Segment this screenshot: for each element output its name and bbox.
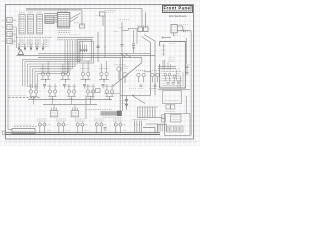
- slanted bus joins: [120, 53, 126, 57]
- net labels route: [119, 27, 125, 29]
- capacitor C20: [183, 30, 185, 32]
- driver cell Q row A x85.5: [81, 67, 91, 69]
- wire x86 down: [85, 96, 87, 120]
- diagonal wire D1: [113, 63, 142, 86]
- label above U5 blob: [58, 9, 68, 11]
- resistor arrows row mid-left: [18, 44, 20, 50]
- svg-text:Front Panel: Front Panel: [164, 6, 192, 11]
- small box pair top: [166, 105, 170, 109]
- connector block outline: [165, 114, 191, 136]
- rail extension left: [104, 93, 120, 95]
- ground symbol: [18, 50, 24, 55]
- relay boxes K2 K3: [50, 111, 58, 117]
- driver cell Q row A x65.5: [61, 67, 71, 69]
- output cell x99: [94, 118, 104, 120]
- caps right of block: [186, 65, 189, 67]
- comb to bottom right: [137, 107, 139, 118]
- wire x142 down: [141, 9, 143, 28]
- diagonal wire D2: [133, 96, 145, 104]
- border frame: [6, 5, 194, 140]
- title block box: [163, 6, 193, 13]
- component Q at x82 lower end: [80, 24, 85, 28]
- long vertical pair x120/x122.5: [119, 58, 121, 112]
- row B rail: [28, 99, 112, 101]
- IC U1: [19, 15, 25, 35]
- fan verticals down-left: [22, 59, 24, 86]
- second bottom line of right block: [158, 89, 190, 91]
- IC U3: [37, 15, 43, 35]
- left edge connectors J1: [7, 18, 12, 23]
- driver cell row A x141: [136, 69, 145, 71]
- mid bus line 2: [17, 55, 156, 57]
- 4-stub group: [134, 121, 136, 133]
- driver cell row A x155: [150, 69, 159, 71]
- dashed net line left: [9, 97, 41, 99]
- driver cell Q row B x90.5: [86, 85, 96, 87]
- fan horizontals to left: [23, 58, 83, 60]
- diode chain: [126, 95, 128, 110]
- mid bus line 1: [38, 52, 151, 54]
- big box U6 (double wall): [77, 40, 92, 62]
- driver cell Q row B x52.5: [48, 85, 58, 87]
- net label row: [86, 108, 112, 110]
- IC U2: [28, 15, 34, 35]
- driver cell Q row B x109.5: [105, 85, 115, 87]
- bias network x103: [102, 84, 105, 86]
- capacitor C7: [121, 44, 124, 46]
- right block dense cluster: [164, 73, 167, 76]
- connector pin labels column: [11, 29, 16, 31]
- double bottom bus: [6, 132, 161, 134]
- second pin label block: [19, 39, 25, 41]
- left border mark: [2, 131, 5, 134]
- stack boxes left: [162, 115, 166, 118]
- driver cell Q row B x71.5: [67, 85, 77, 87]
- bottom perforation dotted line: [6, 141, 198, 143]
- output cell x42: [37, 118, 47, 120]
- wire from left to box: [8, 129, 12, 131]
- open box right mid-low: [163, 91, 182, 104]
- capacitor C8 with diode: [133, 30, 135, 44]
- wire x16.4: [15, 28, 17, 49]
- svg-text:Erik Sandmann: Erik Sandmann: [169, 14, 187, 18]
- wire x186.5 down: [186, 38, 188, 64]
- diagonal feeds to long verticals: [142, 37, 151, 43]
- U1-U3 pin label rows: [20, 21, 25, 23]
- relay K1 box: [171, 25, 177, 33]
- bend wires to right: [143, 128, 155, 133]
- resistor array inside U6: [80, 45, 82, 52]
- labels above ICs: [19, 12, 24, 14]
- K1 pin wires: [177, 25, 183, 27]
- output cell x118: [113, 118, 123, 120]
- wire with tick near right: [162, 37, 171, 39]
- circle transistor cluster right of row A: [117, 67, 121, 71]
- bias network x44.5: [43, 84, 46, 86]
- IC U5 dense block: [57, 13, 70, 28]
- title block revision row: [163, 9, 193, 11]
- driver cell Q row A x104: [99, 67, 109, 69]
- long vertical pair: [150, 43, 152, 96]
- labels left cluster: [122, 66, 129, 68]
- bus comb from U6 band: [64, 41, 66, 77]
- connector X1 cluster: [138, 27, 143, 32]
- label row under ICs: [16, 36, 52, 38]
- cell table box: [171, 115, 182, 123]
- transistor Y1 top middle: [100, 12, 106, 16]
- link cell to vertical: [144, 71, 151, 73]
- IC U4 cluster: [45, 16, 54, 24]
- wire x82 down: [81, 10, 83, 26]
- top bus wires: [26, 7, 142, 9]
- diagonal wires from U5: [70, 13, 81, 19]
- net label TCUL: [118, 19, 129, 21]
- dual mini-grid boxes: [167, 126, 174, 132]
- capacitor right of U6: [97, 32, 99, 62]
- output cell x80: [75, 118, 85, 120]
- comb under stack: [157, 124, 159, 132]
- upper horizontal bus group: [44, 13, 57, 15]
- extra caps bottom: [104, 127, 107, 129]
- bottom-left label box: [12, 129, 35, 134]
- grid (decorative): [0, 0, 200, 146]
- driver cell Q row A x45.5: [41, 67, 51, 69]
- wires into right block: [158, 66, 176, 68]
- lower rail y104.5: [43, 104, 97, 106]
- dark component bar: [101, 111, 118, 115]
- bias network x64.5: [63, 84, 66, 86]
- output cell x61: [56, 118, 66, 120]
- label right of Y1: [105, 9, 116, 11]
- K1 bottom stub: [173, 33, 175, 36]
- wire x186.5 to block: [186, 96, 188, 114]
- label cluster mid right: [169, 57, 176, 59]
- K1 labels: [179, 24, 188, 26]
- bias network x84.5: [83, 84, 86, 86]
- components above dark bar: [96, 89, 101, 93]
- pot R30: [163, 44, 165, 56]
- long vertical wire x105.5: [104, 16, 106, 58]
- sub-circuit box outline: [160, 42, 186, 89]
- left vertical wire x8: [7, 45, 9, 98]
- pin text band above U6: [58, 34, 79, 36]
- wire route from bus to X2: [121, 22, 123, 45]
- horizontal rail y95.3: [120, 94, 151, 96]
- driver cell Q row B x33.5: [29, 85, 39, 87]
- wire x146 down: [145, 13, 147, 28]
- rows under U5: [58, 28, 71, 30]
- mid bus line 3: [38, 57, 142, 59]
- long wire near right border: [190, 31, 192, 136]
- dashed label line: [14, 126, 38, 128]
